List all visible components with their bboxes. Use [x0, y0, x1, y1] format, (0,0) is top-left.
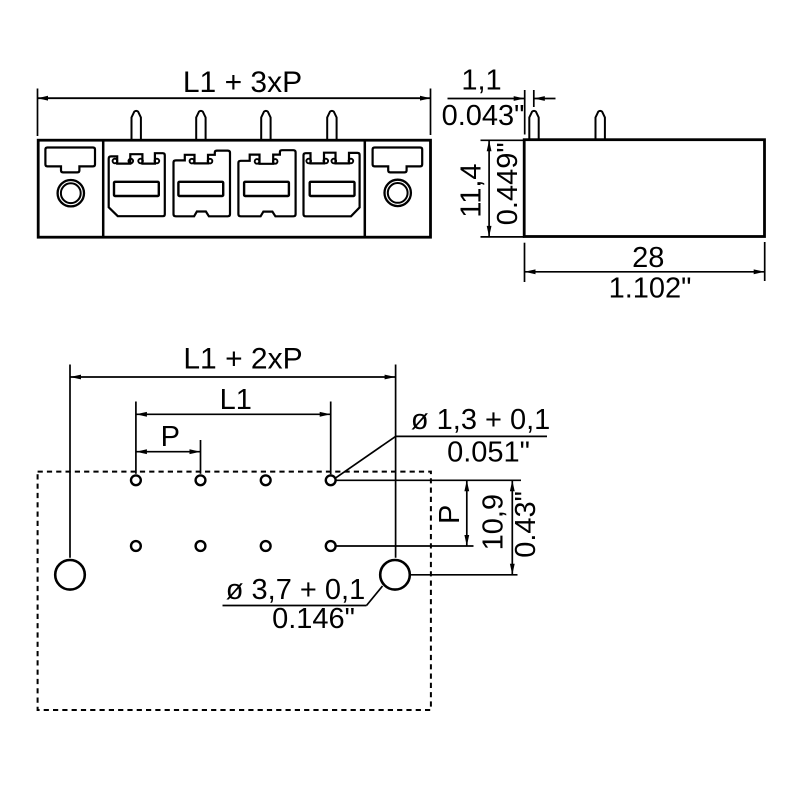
dimension 1,1 dimension line left part — [448, 98, 525, 100]
svg-text:11,4: 11,4 — [456, 163, 488, 217]
svg-text:0.043": 0.043" — [442, 100, 525, 132]
svg-text:1.102": 1.102" — [609, 273, 692, 305]
contact module 4 outline — [304, 153, 360, 217]
drill hole row 1 col 2 — [196, 475, 206, 485]
contact module 3 slot — [244, 182, 289, 196]
small hole leader line — [335, 436, 396, 478]
dimension 28 extension line right — [764, 242, 766, 281]
dimension L1 arrow right — [320, 412, 331, 417]
svg-text:0.449": 0.449" — [492, 142, 524, 225]
front view right flange separator — [364, 140, 367, 237]
side view pin 2 — [596, 111, 605, 140]
svg-text:P: P — [434, 505, 466, 524]
left flange screw ring inner — [61, 183, 81, 203]
dimension P horizontal dimension line — [136, 451, 201, 453]
dimension 28 arrow right — [754, 269, 765, 274]
front view left flange separator — [102, 140, 105, 237]
right flange T-slot — [373, 148, 423, 173]
dimension P horizontal arrow left — [136, 449, 147, 454]
dimension L1 dimension line — [136, 413, 331, 415]
dimension 1,1 arrow right-pointing — [514, 96, 525, 101]
contact module 2 slot — [178, 182, 223, 196]
contact module 2 outline — [174, 151, 231, 217]
dimension 11,4 extension tick top — [481, 139, 525, 141]
left flange screw ring outer — [58, 180, 84, 206]
contact module 4 hook rings — [306, 159, 353, 164]
dimension 10,9 arrow down — [510, 564, 515, 575]
dimension 11,4 arrow down — [487, 226, 492, 237]
side view body outline — [524, 140, 764, 237]
dimension 10,9 arrow up — [510, 480, 515, 491]
side view pin 1 — [529, 111, 538, 140]
dimension L1 + 2xP arrow right — [385, 375, 396, 380]
big hole extension line to right — [411, 574, 518, 576]
svg-text:0.146": 0.146" — [272, 603, 355, 635]
svg-text:0.051": 0.051" — [447, 437, 530, 469]
dimension P vertical arrow up — [464, 480, 469, 491]
dimension P vertical arrow down — [464, 535, 469, 546]
row 2 extension line to right — [336, 545, 473, 547]
dimension L1 + 2xP extension line right to big hole — [395, 365, 397, 558]
dimension 28 extension line left — [524, 243, 526, 282]
big hole label underline — [223, 605, 367, 607]
svg-text:L1: L1 — [220, 384, 252, 416]
pin 4 front view — [327, 111, 336, 140]
contact module 3 hook rings — [255, 159, 278, 164]
right flange screw ring outer — [385, 180, 411, 206]
contact module 1 slot — [114, 182, 159, 196]
dimension L1 + 3xP dimension line — [38, 97, 431, 99]
drill hole row 2 col 2 — [196, 541, 206, 551]
drill hole row 1 col 1 — [131, 475, 141, 485]
dimension 1,1 extension line at body edge — [524, 90, 526, 135]
dimension 1,1 dimension line right part — [534, 98, 556, 100]
dimension 28 dimension line — [525, 271, 765, 273]
contact module 2 hook rings — [190, 159, 213, 164]
dimension 11,4 arrow up — [487, 140, 492, 151]
dimension P horizontal arrow right — [190, 449, 201, 454]
svg-text:0.43": 0.43" — [510, 491, 542, 558]
contact module 4 slot — [310, 182, 355, 196]
drill hole row 1 col 4 — [326, 475, 336, 485]
right flange screw ring inner — [388, 183, 408, 203]
dimension L1 + 3xP extension line right — [430, 89, 432, 136]
drill hole row 2 col 3 — [261, 541, 271, 551]
dimension L1 extension line right — [330, 402, 332, 475]
dimension L1 + 3xP arrow right — [420, 96, 431, 101]
row 1 extension line to right — [336, 479, 521, 481]
drill hole row 2 col 1 — [131, 541, 141, 551]
dimension P vertical dimension line — [466, 480, 468, 546]
dimension 11,4 extension tick bottom — [481, 236, 525, 238]
big hole leader line — [367, 586, 383, 606]
dimension 1,1 extension line at pin — [533, 90, 535, 107]
pin 1 front view — [132, 111, 141, 140]
dimension L1 + 2xP arrow left — [70, 375, 81, 380]
drilling plan dashed board outline — [38, 472, 431, 710]
svg-text:L1 + 2xP: L1 + 2xP — [183, 343, 302, 376]
svg-text:1,1: 1,1 — [461, 65, 501, 97]
dimension P horizontal extension line right — [200, 440, 202, 474]
svg-text:28: 28 — [632, 242, 664, 274]
dimension 11,4 dimension line — [488, 140, 490, 237]
dimension 10,9 dimension line — [511, 480, 513, 575]
big mounting hole left — [55, 560, 85, 590]
contact module 1 hook rings — [113, 159, 160, 164]
left flange T-slot — [45, 148, 95, 173]
svg-text:ø 1,3 + 0,1: ø 1,3 + 0,1 — [411, 404, 550, 436]
dimension 1,1 arrow left-pointing — [534, 96, 545, 101]
svg-text:ø 3,7 + 0,1: ø 3,7 + 0,1 — [226, 574, 365, 606]
svg-text:L1 + 3xP: L1 + 3xP — [183, 66, 302, 99]
dimension L1 arrow left — [136, 412, 147, 417]
small hole label underline — [396, 435, 547, 437]
svg-text:10,9: 10,9 — [478, 494, 510, 550]
dimension L1 + 3xP extension line left — [37, 89, 39, 137]
dimension L1 + 2xP dimension line — [70, 376, 396, 378]
front view body outline — [38, 140, 430, 237]
contact module 1 outline — [109, 153, 165, 216]
big mounting hole right — [380, 560, 410, 590]
dimension 28 arrow left — [525, 269, 536, 274]
pin 2 front view — [196, 111, 205, 140]
dimension L1 extension line left — [135, 402, 137, 474]
dimension L1 + 2xP extension line left to big hole — [69, 365, 71, 558]
dimension L1 + 3xP arrow left — [38, 96, 49, 101]
contact module 3 outline — [238, 150, 295, 216]
pin 3 front view — [261, 111, 270, 140]
drill hole row 2 col 4 — [326, 541, 336, 551]
svg-text:P: P — [161, 421, 180, 453]
drill hole row 1 col 3 — [261, 475, 271, 485]
